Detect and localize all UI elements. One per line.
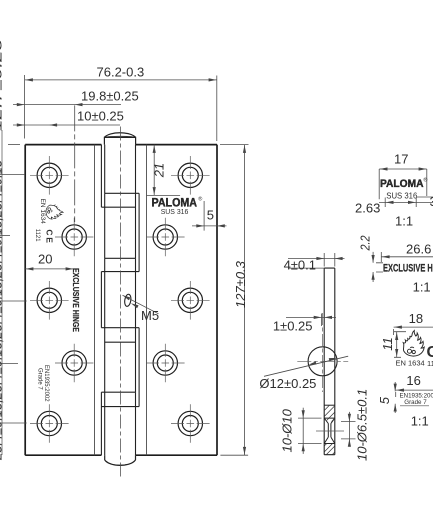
hole left inner row2: [62, 351, 86, 375]
svg-text:19.8±0.25: 19.8±0.25: [81, 89, 139, 104]
svg-text:10±0.25: 10±0.25: [77, 109, 124, 124]
dimension 2.63: [379, 197, 433, 207]
svg-text:18: 18: [409, 311, 423, 326]
svg-text:1121: 1121: [34, 229, 40, 243]
hole section top boundary: [324, 404, 335, 406]
barrel knuckle K3 (center, left leaf): [101, 258, 139, 327]
svg-text:16: 16: [406, 373, 420, 388]
label M5 with leader: [123, 295, 159, 314]
dimension 127+-0.3: [220, 145, 249, 456]
dimension 19.8+-0.25: [13, 105, 121, 222]
section hatching upper: [324, 405, 335, 421]
hinge left leaf outline: [25, 145, 101, 456]
barrel bottom cap: [105, 455, 136, 465]
hole section countersink profile: [324, 418, 335, 443]
hole right outer row1: [178, 163, 202, 187]
svg-text:EN 1634: EN 1634: [39, 199, 46, 225]
svg-text:127±0.3: 127±0.3: [233, 260, 248, 308]
svg-text:Grade 7: Grade 7: [404, 399, 427, 406]
M5 grease slot: [124, 294, 132, 307]
svg-text:2.2: 2.2: [357, 235, 372, 251]
svg-text:1:1: 1:1: [411, 414, 429, 429]
hole right outer row3: [178, 411, 202, 435]
dimension 16: [396, 390, 433, 397]
dimension 10+-0.25: [13, 124, 120, 126]
svg-text:12.7±0.25: 12.7±0.25: [0, 38, 5, 131]
hole centerline crosses: [30, 156, 210, 443]
hinge right leaf outline: [136, 145, 217, 456]
dimension 10-Dia6.5+-0.1: [341, 412, 356, 447]
svg-text:SUS 316: SUS 316: [386, 191, 418, 200]
svg-text:76.2-0.3: 76.2-0.3: [97, 65, 145, 80]
svg-text:10-Ø6.5±0.1: 10-Ø6.5±0.1: [355, 389, 370, 461]
svg-text:2.63: 2.63: [355, 200, 380, 215]
flame cert logo (EN1634) on left leaf: [46, 205, 63, 219]
dimension 5 (text height): [394, 382, 396, 413]
svg-text:17: 17: [394, 152, 408, 167]
svg-text:1±0.25: 1±0.25: [273, 319, 313, 334]
dimension 2.2: [373, 252, 383, 282]
svg-text:®: ®: [423, 176, 427, 183]
dimension 76.2-0.3: [25, 75, 217, 141]
dimension 4+-0.1: [288, 253, 345, 267]
svg-text:®: ®: [198, 195, 202, 202]
barrel top cap: [104, 133, 135, 145]
flame logo detail: [403, 330, 424, 356]
hole right inner row2: [153, 351, 177, 375]
pivot pin circle: [308, 347, 337, 376]
dimension 17: [379, 169, 427, 199]
svg-text:21: 21: [152, 163, 167, 178]
left leaf fold line: [94, 145, 96, 456]
dimension 11: [394, 332, 406, 358]
svg-text:1:1: 1:1: [413, 279, 431, 294]
svg-text:PALOMA: PALOMA: [380, 178, 424, 190]
svg-text:C E: C E: [44, 229, 54, 243]
hole left outer row3: [37, 411, 61, 435]
svg-text:EN 1634: EN 1634: [396, 359, 425, 368]
svg-text:Grade 7: Grade 7: [37, 368, 43, 390]
leader and dimension Dia12+-0.25: [264, 356, 348, 376]
hole right inner row1: [153, 225, 177, 249]
svg-text:EXCLUSIVE HINGE: EXCLUSIVE HINGE: [71, 268, 81, 332]
dimension 21 (knuckle): [147, 145, 181, 196]
svg-text:3: 3: [430, 194, 433, 209]
clipped left dimension 12.7: [0, 130, 27, 455]
svg-text:M5: M5: [141, 308, 159, 323]
hole right outer row2: [178, 288, 202, 312]
hole axis centerline: [316, 430, 344, 432]
svg-text:Ø12±0.25: Ø12±0.25: [259, 376, 316, 391]
svg-text:EN1935:2002: EN1935:2002: [43, 365, 49, 402]
dimension 20: [25, 268, 74, 270]
svg-text:11: 11: [427, 359, 433, 368]
dimension 5 (edge margin): [192, 201, 227, 231]
barrel pin centerline: [120, 127, 122, 479]
barrel knuckle K2 (right leaf): [101, 193, 139, 271]
holes: [37, 163, 202, 436]
hole left outer row1: [37, 163, 61, 187]
svg-text:11: 11: [380, 337, 395, 351]
dimension 26.6: [381, 252, 433, 262]
svg-text:26.6: 26.6: [406, 242, 431, 257]
dimension 18: [394, 327, 433, 335]
hole left outer row2: [37, 288, 61, 312]
hole left inner row1: [62, 225, 86, 249]
svg-text:5: 5: [377, 396, 392, 404]
svg-text:5: 5: [207, 208, 214, 223]
right leaf fold line: [146, 145, 148, 456]
side view plate outline: [324, 268, 335, 455]
section hatching lower: [324, 443, 335, 455]
svg-text:EXCLUSIVE HINGE: EXCLUSIVE HINGE: [383, 263, 433, 275]
pin circle centerlines: [297, 360, 348, 362]
underline: [400, 405, 429, 407]
svg-text:10-Ø10: 10-Ø10: [280, 408, 295, 452]
svg-text:4±0.1: 4±0.1: [284, 257, 316, 272]
svg-text:20: 20: [38, 252, 52, 267]
dimension 1+-0.25: [286, 314, 336, 327]
svg-text:SUS 316: SUS 316: [161, 207, 189, 216]
barrel knuckle K4 (right leaf): [101, 328, 139, 407]
barrel knuckle K5 (bottom, left leaf): [101, 392, 139, 455]
dimension 10-Dia10: [298, 408, 322, 454]
svg-text:1:1: 1:1: [395, 213, 413, 228]
svg-text:25.4±0.15,25.4±0.15,25.4±0.15,: 25.4±0.15,25.4±0.15,25.4±0.15,25.4±0.15,…: [0, 159, 5, 461]
barrel knuckle K1 (top, left leaf): [101, 145, 139, 208]
side view plate top shelf line: [288, 267, 324, 269]
